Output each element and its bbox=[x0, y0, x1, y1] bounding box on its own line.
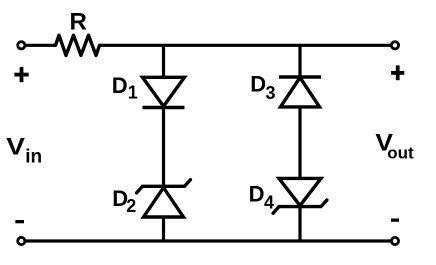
resistor R bbox=[53, 35, 102, 55]
terminal top-left bbox=[18, 42, 25, 49]
terminal top-right bbox=[391, 42, 398, 49]
zener diode D2 bbox=[137, 180, 191, 217]
label Vout bbox=[375, 129, 414, 162]
minus sign left bbox=[15, 220, 24, 223]
wire top rail right segment bbox=[102, 44, 391, 47]
svg-text:in: in bbox=[25, 146, 42, 167]
svg-text:2: 2 bbox=[126, 196, 136, 216]
plus sign right bbox=[391, 65, 404, 80]
terminal bottom-right bbox=[391, 237, 398, 244]
diode D1 bbox=[143, 77, 185, 107]
svg-text:D: D bbox=[250, 72, 266, 97]
svg-text:3: 3 bbox=[266, 83, 276, 103]
plus sign left bbox=[14, 67, 28, 82]
wire top rail left segment bbox=[26, 44, 54, 47]
svg-text:D: D bbox=[112, 73, 128, 98]
wire left branch vertical bbox=[162, 45, 165, 241]
diode D3 bbox=[279, 77, 321, 107]
svg-text:D: D bbox=[249, 182, 265, 207]
wire right branch vertical bbox=[298, 45, 301, 241]
svg-text:1: 1 bbox=[128, 83, 138, 103]
wire bottom rail bbox=[26, 239, 391, 242]
minus sign right bbox=[391, 219, 399, 222]
svg-text:4: 4 bbox=[264, 193, 274, 213]
label D2 bbox=[112, 186, 136, 216]
svg-text:V: V bbox=[6, 132, 25, 160]
label D1 bbox=[112, 73, 138, 103]
svg-text:out: out bbox=[387, 143, 414, 162]
terminal bottom-left bbox=[18, 237, 25, 244]
zener diode D4 bbox=[273, 178, 327, 213]
label Vin bbox=[6, 132, 42, 167]
label D3 bbox=[250, 72, 275, 103]
label D4 bbox=[249, 182, 274, 213]
svg-text:R: R bbox=[70, 9, 87, 36]
